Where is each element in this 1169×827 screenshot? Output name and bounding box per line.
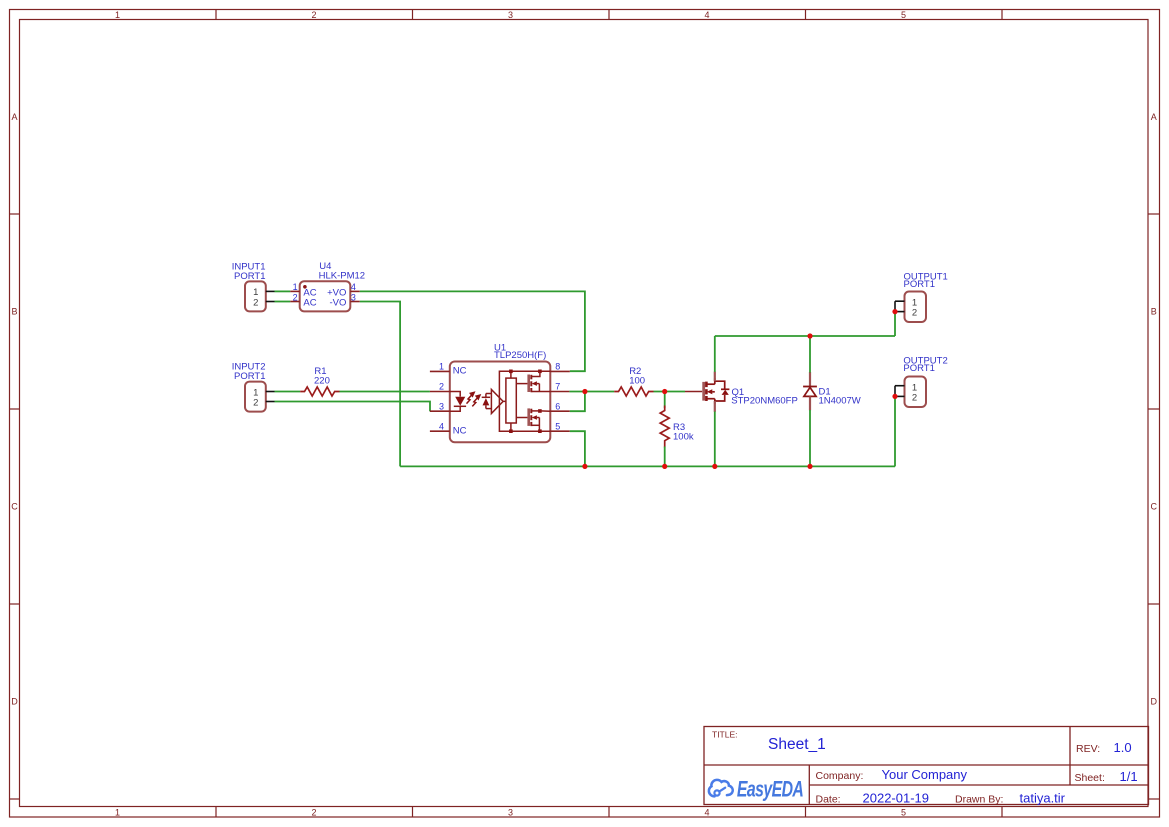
- wire riser to OUTPUT1: [894, 312, 896, 336]
- U1 internal upper MOSFET: [516, 371, 550, 392]
- svg-text:2022-01-19: 2022-01-19: [863, 791, 930, 806]
- svg-text:3: 3: [351, 292, 356, 302]
- svg-text:B: B: [11, 307, 17, 317]
- wire R3 to bottom rail: [664, 447, 666, 467]
- svg-text:1: 1: [115, 808, 120, 818]
- svg-text:2: 2: [311, 10, 316, 20]
- svg-text:TLP250H(F): TLP250H(F): [494, 350, 546, 361]
- svg-text:Sheet_1: Sheet_1: [768, 736, 826, 753]
- svg-text:2: 2: [311, 808, 316, 818]
- svg-text:C: C: [11, 502, 18, 512]
- svg-text:2: 2: [293, 292, 298, 302]
- optocoupler U1 TLP250H(F): [450, 362, 551, 443]
- svg-text:PORT1: PORT1: [904, 279, 936, 290]
- U1 internal LED: [450, 392, 466, 412]
- svg-text:6: 6: [555, 401, 560, 411]
- svg-text:8: 8: [555, 362, 560, 372]
- svg-text:1: 1: [293, 282, 298, 292]
- resistor R2: [614, 387, 653, 396]
- title block frame: [704, 727, 1149, 805]
- svg-text:2: 2: [439, 382, 444, 392]
- svg-text:4: 4: [704, 808, 709, 818]
- U1 pin 5: [550, 421, 570, 431]
- OUTPUT2 PORT1 label: [903, 355, 947, 374]
- svg-text:Sheet:: Sheet:: [1075, 772, 1105, 784]
- wire Q1 source down: [714, 412, 716, 467]
- svg-text:Company:: Company:: [816, 770, 864, 782]
- junction node D1 rail: [807, 464, 812, 469]
- R2 value labels: [629, 366, 645, 387]
- connector OUTPUT2 pin 1: [895, 385, 905, 387]
- junction node OUTPUT2: [892, 394, 897, 399]
- connector INPUT2 PORT1: [245, 382, 266, 412]
- svg-text:tatiya.tir: tatiya.tir: [1020, 791, 1066, 806]
- U4 pin 3: [350, 292, 360, 302]
- U4 pin 2: [290, 292, 299, 302]
- svg-text:A: A: [1151, 112, 1157, 122]
- connector OUTPUT1 PORT1: [905, 292, 927, 323]
- EasyEDA logo: [709, 778, 803, 802]
- connector INPUT1 pin 1: [266, 290, 275, 292]
- title block labels: [712, 730, 1105, 806]
- svg-text:AC: AC: [303, 287, 316, 298]
- svg-text:2: 2: [253, 298, 258, 309]
- connector OUTPUT2 PORT1: [905, 377, 927, 408]
- junction node Q1 source rail: [712, 464, 717, 469]
- U4 pin 4: [350, 282, 360, 292]
- junction node R2/R3/gate: [662, 389, 667, 394]
- wire D1 bottom: [809, 410, 811, 466]
- wire INPUT1.1 to U4.1: [275, 290, 291, 292]
- svg-text:REV:: REV:: [1076, 743, 1100, 755]
- svg-text:TITLE:: TITLE:: [712, 730, 738, 740]
- svg-text:STP20NM60FP: STP20NM60FP: [731, 395, 798, 406]
- svg-text:Drawn By:: Drawn By:: [955, 794, 1003, 806]
- svg-text:5: 5: [901, 10, 906, 20]
- wire R1 to U1 pin2: [340, 391, 430, 393]
- junction node OUTPUT1: [892, 309, 897, 314]
- svg-text:1: 1: [439, 362, 444, 372]
- U1 internal amplifier: [491, 390, 506, 414]
- svg-text:2: 2: [912, 393, 917, 404]
- wire U4 -VO down: [360, 302, 400, 467]
- U1 internal light arrows: [467, 392, 481, 406]
- wire INPUT2.2 to U1 pin3: [275, 402, 431, 412]
- svg-text:A: A: [11, 112, 17, 122]
- svg-text:3: 3: [508, 10, 513, 20]
- resistor R3: [660, 406, 669, 448]
- wire U4 +VO to U1 pin8: [360, 291, 585, 371]
- U1 pin 2: [430, 382, 450, 392]
- svg-text:1/1: 1/1: [1120, 769, 1138, 784]
- wire node to R3: [664, 392, 666, 409]
- svg-text:Date:: Date:: [816, 794, 841, 806]
- wire INPUT2.1 to R1: [275, 391, 301, 393]
- connector OUTPUT1 pin 1: [895, 300, 905, 302]
- U1 pin 8: [550, 362, 570, 372]
- U1 pin 1: [430, 362, 450, 372]
- wire riser to OUTPUT2: [894, 396, 896, 466]
- Q1 reference labels: [731, 387, 798, 407]
- U1 reference label: [494, 342, 546, 361]
- svg-text:100: 100: [629, 375, 645, 386]
- svg-text:D: D: [11, 697, 18, 707]
- junction node pin5 rail: [582, 464, 587, 469]
- svg-text:+VO: +VO: [327, 287, 346, 298]
- svg-text:5: 5: [555, 421, 560, 431]
- svg-text:C: C: [1151, 502, 1158, 512]
- wire Q1 drain up: [714, 336, 716, 372]
- resistor R1: [300, 387, 339, 396]
- U1 pin 3: [430, 401, 450, 411]
- svg-text:3: 3: [439, 401, 444, 411]
- svg-text:3: 3: [508, 808, 513, 818]
- U1 pin 4: [430, 421, 450, 431]
- svg-text:Your Company: Your Company: [882, 767, 968, 782]
- svg-text:EasyEDA: EasyEDA: [737, 778, 803, 802]
- U1 pin 7: [550, 382, 569, 392]
- D1 reference labels: [819, 387, 861, 407]
- svg-text:220: 220: [314, 376, 330, 387]
- svg-text:1: 1: [912, 382, 917, 393]
- junction node pin7/R2: [582, 389, 587, 394]
- INPUT1 PORT1 label: [232, 261, 266, 282]
- junction node D1 top: [807, 333, 812, 338]
- U4 reference label: [319, 261, 365, 282]
- svg-text:PORT1: PORT1: [234, 271, 266, 282]
- OUTPUT1 PORT1 label: [904, 271, 948, 290]
- svg-text:4: 4: [351, 282, 356, 292]
- svg-text:2: 2: [912, 308, 917, 319]
- wire bottom rail: [400, 465, 895, 467]
- svg-text:B: B: [1151, 307, 1157, 317]
- diode D1 1N4007W: [803, 372, 817, 410]
- svg-text:2: 2: [253, 398, 258, 409]
- title block values: [768, 736, 1138, 806]
- svg-text:PORT1: PORT1: [903, 363, 935, 374]
- connector INPUT1 PORT1: [245, 281, 266, 311]
- U1 internal junction squares: [509, 370, 542, 434]
- svg-text:1.0: 1.0: [1114, 740, 1132, 755]
- connector INPUT1 pin 2: [266, 301, 275, 303]
- svg-text:D: D: [1151, 697, 1158, 707]
- junction node R3 rail: [662, 464, 667, 469]
- R1 value labels: [314, 366, 330, 387]
- wire D1 top: [809, 336, 811, 373]
- AC/DC module U4 HLK-PM12: [300, 281, 351, 311]
- wire R2 to Q1 gate: [654, 391, 686, 393]
- svg-text:-VO: -VO: [330, 298, 347, 309]
- svg-text:100k: 100k: [673, 432, 694, 443]
- svg-text:1: 1: [912, 297, 917, 308]
- R3 value labels: [673, 422, 694, 443]
- wire U1 pin7 to R2: [569, 391, 614, 393]
- OUTPUT2 pin tie: [894, 386, 896, 397]
- U1 internal lower MOSFET: [516, 408, 550, 431]
- wire U1 pin5 to bottom rail: [570, 431, 585, 466]
- svg-text:5: 5: [901, 808, 906, 818]
- INPUT2 PORT1 label: [232, 362, 266, 383]
- svg-text:HLK-PM12: HLK-PM12: [319, 271, 365, 282]
- svg-text:1: 1: [115, 10, 120, 20]
- svg-text:PORT1: PORT1: [234, 371, 266, 382]
- wire U1 pin6 riser to node: [570, 392, 585, 412]
- svg-text:NC: NC: [453, 365, 467, 376]
- svg-text:1N4007W: 1N4007W: [819, 395, 861, 406]
- U1 internal photodiode: [482, 394, 492, 409]
- svg-text:4: 4: [704, 10, 709, 20]
- svg-text:4: 4: [439, 421, 444, 431]
- connector INPUT2 pin 1: [266, 391, 275, 393]
- MOSFET Q1 STP20NM60FP: [685, 372, 729, 412]
- svg-text:NC: NC: [453, 425, 467, 436]
- U1 internal supply bracket: [499, 371, 550, 431]
- svg-text:7: 7: [555, 382, 560, 392]
- connector OUTPUT2 pin 2: [895, 395, 905, 397]
- connector INPUT2 pin 2: [266, 401, 275, 403]
- OUTPUT1 pin tie: [894, 301, 896, 311]
- U4 pin 1: [290, 282, 299, 292]
- wire top rail: [715, 335, 895, 337]
- connector OUTPUT1 pin 2: [895, 311, 905, 313]
- wire INPUT1.2 to U4.2: [275, 301, 291, 303]
- svg-text:AC: AC: [303, 298, 316, 309]
- U1 pin 6: [550, 401, 570, 411]
